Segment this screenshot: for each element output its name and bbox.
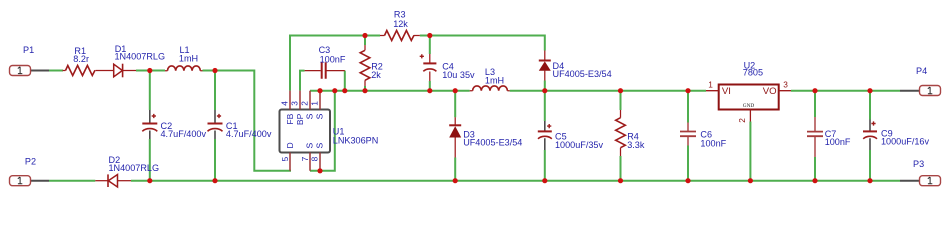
junction mid rail / D3 [453,88,458,93]
svg-text:8.2r: 8.2r [73,54,89,64]
svg-text:3.3k: 3.3k [627,140,645,150]
wire mid rail pin2 to L3 [310,90,470,92]
svg-text:1N4007RLG: 1N4007RLG [109,163,160,173]
junction bottom rail / C6 [685,178,690,183]
junction bottom rail / C9 [867,178,872,183]
wire bottom rail D2 to P3 [131,180,900,182]
svg-text:BP: BP [295,113,305,125]
svg-text:1mH: 1mH [179,53,198,63]
svg-text:P2: P2 [25,157,36,167]
junction output rail / C7 [812,88,817,93]
junction output rail / C9 [867,88,872,93]
wire R2 bottom stub [364,86,366,91]
svg-text:GND: GND [743,103,755,109]
wire R2 top stub [364,36,366,46]
wire top rail R3 to D4 corner [420,36,545,51]
wire C7 bottom stub [814,157,816,181]
wire top rail P1 to R1 [49,70,63,72]
connector P4 [900,66,941,96]
svg-text:S: S [305,143,315,149]
diode D3 [449,117,522,157]
svg-text:P4: P4 [916,66,927,76]
svg-text:3: 3 [290,101,300,106]
connector P3 [900,159,941,186]
connector P1 [10,45,50,76]
wire source pins 7-8 to vertical riser [310,91,335,171]
junction mid rail / source riser [332,88,337,93]
svg-text:1N4007RLG: 1N4007RLG [115,51,166,61]
junction mid rail / U1 pin 1 [317,88,322,93]
wire D1 to L1 [136,70,165,72]
capacitor C5 [538,121,604,150]
wire C4 bottom stub [429,81,431,91]
diode D2 [95,155,159,187]
svg-text:VO: VO [763,86,777,97]
svg-text:2: 2 [300,101,310,106]
svg-text:S: S [314,143,324,149]
wire D3 top stub [454,91,456,118]
wire U2 pin2 to ground rail [749,122,751,181]
wire R4 top stub [620,91,622,110]
junction mid rail / R4 [618,88,623,93]
svg-text:1: 1 [708,79,713,89]
inductor L3 [470,67,510,91]
svg-text:8: 8 [310,156,320,161]
junction mid rail / R2 [362,88,367,93]
capacitor C3 [305,45,346,79]
diode D4 [539,51,612,81]
svg-text:S: S [305,113,315,119]
svg-text:S: S [314,113,324,119]
junction bottom rail / C2 [147,178,152,183]
junction input rail / C1 [212,68,217,73]
wire C9 bottom stub [869,150,871,181]
junction feedback rail / R2 [362,33,367,38]
wire C6 top stub [687,91,689,123]
svg-text:7805: 7805 [743,68,763,78]
svg-text:1: 1 [310,101,320,106]
capacitor C9 [863,120,929,151]
junction feedback rail / C4 [427,33,432,38]
junction bottom rail / D3 [453,178,458,183]
svg-text:1000uF/35v: 1000uF/35v [555,140,603,150]
wire L1 right to corner down to pin5 run [203,71,292,171]
svg-text:2k: 2k [371,70,381,80]
regulator U2 7805 [706,60,791,122]
wire C3 right corner down [344,71,346,91]
wire U2 pin3 to P4 [791,90,900,92]
junction bottom rail / R4 [618,178,623,183]
junction mid rail / C6 [685,88,690,93]
svg-text:10u 35v: 10u 35v [442,70,475,80]
svg-text:12k: 12k [393,19,408,29]
resistor R1 [63,46,114,76]
wire C1 drop upper [214,71,216,111]
junction bottom rail / C7 [812,178,817,183]
junction mid rail / D4 C5 [542,88,547,93]
svg-text:P1: P1 [23,45,34,55]
junction bottom rail / C1 [212,178,217,183]
capacitor C1 [208,110,272,139]
connector P2 [10,157,50,186]
wire C5 bottom stub [544,150,546,181]
capacitor C2 [142,110,206,139]
svg-text:100nF: 100nF [825,137,851,147]
wire C2 drop upper [149,71,151,111]
svg-text:VI: VI [722,86,731,97]
diode D1 [114,44,165,77]
junction bottom rail / U2 pin 2 [748,178,753,183]
wire mid rail L3 to U2 pin1 [510,90,706,92]
svg-text:UF4005-E3/54: UF4005-E3/54 [463,138,522,148]
resistor R3 [380,9,420,40]
wire feedback top rail [290,36,380,91]
svg-text:D: D [285,142,295,148]
wire C2 drop lower [149,139,151,181]
wire D4 bottom stub [544,81,546,91]
capacitor C6 [680,123,727,149]
IC U1 LNK306PN [280,91,379,171]
svg-text:2: 2 [737,118,747,123]
wire pin3 BP to C3 [300,71,305,91]
junction mid rail / C4 [427,88,432,93]
svg-text:P3: P3 [913,159,924,169]
junction bottom rail / C5 [542,178,547,183]
wire bottom rail P2 to D2 [49,180,95,182]
wire C6 bottom stub [687,146,689,181]
svg-text:4.7uF/400v: 4.7uF/400v [161,129,207,139]
capacitor C4 [420,54,475,81]
svg-text:5: 5 [280,156,290,161]
svg-text:1mH: 1mH [485,75,504,85]
wire C4 top stub [429,36,431,55]
junction input rail / C2 [147,68,152,73]
wire R4 bottom stub [620,156,622,181]
resistor R2 [360,45,383,86]
svg-text:3: 3 [783,79,788,89]
resistor R4 [616,110,645,156]
svg-text:LNK306PN: LNK306PN [333,135,379,145]
svg-text:UF4005-E3/54: UF4005-E3/54 [553,69,612,79]
wire C1 drop lower [214,139,216,181]
wire C9 top stub [869,91,871,120]
junction mid rail / C3 [342,88,347,93]
inductor L1 [165,45,203,71]
svg-text:1000uF/16v: 1000uF/16v [881,137,929,147]
wire C7 top stub [814,91,816,117]
junction source wire / U1 pin 8 [317,168,322,173]
svg-text:R3: R3 [394,9,406,19]
svg-text:FB: FB [285,113,295,124]
svg-text:4.7uF/400v: 4.7uF/400v [226,129,272,139]
wire D3 bottom stub [454,158,456,181]
svg-text:100nF: 100nF [320,54,346,64]
svg-text:100nF: 100nF [700,139,726,149]
wire C5 top stub [544,91,546,121]
svg-text:7: 7 [300,156,310,161]
svg-text:4: 4 [280,101,290,106]
capacitor C7 [807,117,851,157]
